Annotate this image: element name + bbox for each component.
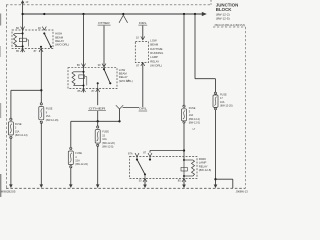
wire: DRL (top) to relay U3 pin 10 [142,26,144,40]
fuse F4 [68,147,88,168]
svg-text:(8W-12-5): (8W-12-5) [216,16,230,20]
pin 87A terminal [135,153,139,156]
wire: branch left to fuse 3 [11,90,41,118]
wire: relay U4 pin 85 output [183,179,185,186]
svg-text:(8W-12-5): (8W-12-5) [189,122,200,125]
wire: relay U1 pin 87 down [40,49,42,104]
node OTHER (lower) [88,106,107,110]
junction block left dashed border [6,5,8,189]
svg-text:(8W-12-16): (8W-12-16) [46,119,59,122]
svg-text:FUSE: FUSE [75,152,82,155]
contact 87 stub [149,157,151,160]
svg-text:OTHER: OTHER [89,106,107,110]
coil suppression resistor [79,75,85,78]
pin 86 terminal [82,64,86,67]
svg-text:FUSE: FUSE [46,108,53,111]
relay U3: LOW BEAM DAYTIME RUNNING LAMP RELAY (W/ DRL) [135,36,163,68]
pin 85 terminal [182,179,186,183]
relay U2: LOW BEAM RELAY (W/O DRL) [68,63,133,93]
fuse F5 [182,105,201,125]
svg-text:FUSE: FUSE [189,107,196,110]
contact 87 [97,82,99,84]
switch arm [43,32,45,34]
wire: lower tie bus [71,120,120,122]
wire: bus elbow to fuse F17 [195,14,216,92]
wire: fuse F3 output [10,139,12,185]
junction block top dashed border [6,4,211,6]
box [12,30,53,49]
wire: fuse F4 output [70,168,72,185]
svg-text:(8W-12-20): (8W-12-20) [220,105,233,108]
relay U4: PARK LAMP RELAY [128,151,211,183]
wire: branch right step [216,179,233,188]
svg-text:M9828205: M9828205 [1,190,16,194]
wire: fuse F15 output [97,147,99,186]
fuse F9 [39,103,59,124]
wire: fuse F5 to park lamp relay [183,123,185,160]
wire: tie bus left leg to fuse 4 [70,121,72,147]
svg-text:(8W-10-8) (8W-12-2) (8W-15-6): (8W-10-8) (8W-12-2) (8W-15-6) [215,25,246,27]
switch arm [103,68,105,70]
wire: relay U2 pin 87 down to OTHER node [97,89,99,106]
fuse F15 [95,121,115,148]
box [130,157,198,179]
wire: relay U3 pin 87 to DRL node [142,63,144,108]
wire: main bus B+ [23,13,203,15]
box [68,68,117,89]
switch arm [137,160,145,175]
relay U1: HIGH BEAM RELAY (W/O DRL) [12,26,69,53]
svg-text:(8W-12-14): (8W-12-14) [15,134,28,137]
svg-text:15A: 15A [15,130,20,133]
svg-text:FUSE: FUSE [220,93,227,96]
contact 87 [40,46,42,48]
svg-text:J968W-13: J968W-13 [236,189,249,193]
fuse F3 [8,118,27,139]
junction block right dashed border [245,27,247,188]
coil [183,159,185,161]
wire: bus split to OTHER / DRL [119,15,128,23]
junction block inner dashed edge y=27 [213,26,246,28]
svg-text:OTHER: OTHER [98,21,110,25]
coil suppression resistor [181,167,187,171]
svg-text:(8W-12-2): (8W-12-2) [189,118,200,121]
svg-text:(W/ DRL): (W/ DRL) [150,64,162,68]
wire: DRL (lower) convergence [116,105,139,121]
wire: bus to relay U2 pin 86 [83,14,85,93]
node OTHER (top) [98,21,111,25]
wire: relay U4 pin 30 output [144,179,146,186]
svg-text:(W/O DRL): (W/O DRL) [55,43,69,47]
junction block corner stub at x=211 [210,0,212,5]
wire: fuse F17 output [215,110,217,185]
svg-text:(8W-12-8): (8W-12-8) [199,168,212,172]
scan edge artifacts [0,14,1,198]
svg-text:15A: 15A [46,115,51,118]
coil [72,72,75,86]
pin 87 terminal [141,63,145,67]
svg-text:(8W-12-5): (8W-12-5) [102,146,113,149]
svg-text:10A: 10A [102,138,107,141]
svg-text:87A: 87A [128,151,133,155]
node: bus junction dots [21,13,196,15]
pin 87 terminal [96,89,100,93]
pin 87 terminal [148,153,152,156]
arrow into junction block label [202,12,207,16]
svg-text:DRL: DRL [139,107,147,111]
pin 85 terminal [21,49,25,52]
node DRL (top) [138,21,147,25]
svg-text:FUSE: FUSE [102,131,109,134]
contact 87A [136,159,138,161]
coil [14,33,17,46]
svg-text:FUSE: FUSE [15,123,22,126]
svg-text:(8W-12-22): (8W-12-22) [75,163,88,166]
wire: bus down to fuse F5 [183,14,185,105]
coil suppression resistor [19,38,26,42]
box [135,42,148,63]
pin 85 terminal [82,89,86,93]
wire: feed from fusible link up-arrow [21,0,29,52]
wire: OTHER to relay U2 pin 30 [103,26,105,70]
pin 30 terminal [42,27,46,30]
pin 86 terminal [21,27,25,30]
svg-text:15A: 15A [75,160,80,163]
wire: fuse F9 output [40,123,42,185]
junction block label [215,2,246,27]
pin 30 terminal [102,64,106,67]
svg-text:BLOCK: BLOCK [216,7,232,12]
node: relay U4 feed junction [183,149,185,151]
junction block bottom dashed border [6,187,246,189]
wire: branch to pin 87 [150,151,184,153]
svg-text:DRL: DRL [139,21,147,25]
svg-text:10A: 10A [220,101,225,104]
node DRL (lower) [139,107,148,111]
pin 30 terminal [143,179,147,183]
fuse F17 [213,92,233,110]
pin 10 terminal [141,36,145,40]
wire: OTHER node down [97,111,99,121]
node T junction [40,89,42,91]
pin 87 terminal [39,49,43,52]
svg-text:(8W-12-20): (8W-12-20) [102,142,115,145]
svg-text:10A: 10A [189,114,194,117]
